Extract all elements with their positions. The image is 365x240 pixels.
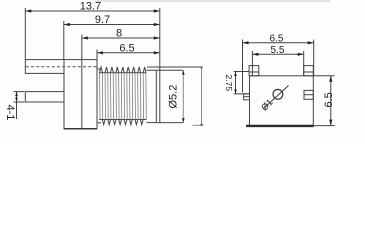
svg-text:4-1: 4-1 (4, 105, 16, 121)
Ø1 leader line (264, 86, 289, 109)
dimension 8 (82, 28, 160, 60)
svg-text:6.5: 6.5 (270, 33, 284, 44)
connector body block (side view) (64, 60, 97, 129)
svg-text:Ø1: Ø1 (259, 97, 275, 113)
left side leg tab (244, 94, 250, 100)
lower mounting leg (25, 92, 64, 102)
upper mounting leg (25, 60, 64, 74)
svg-text:2.75: 2.75 (224, 75, 234, 92)
svg-text:8: 8 (116, 28, 122, 40)
hidden PCB slot line (dashed) (26, 66, 97, 68)
end face edge (155, 70, 157, 122)
body bottom edge (64, 128, 97, 130)
dimension 13.7 overall length (25, 1, 160, 68)
threaded barrel (97, 67, 147, 125)
dimension 6.5 width (front view) (243, 33, 314, 92)
svg-text:5.5: 5.5 (271, 45, 285, 56)
outer reference dimension line (193, 66, 204, 126)
right side leg tab (304, 90, 313, 99)
svg-text:13.7: 13.7 (80, 1, 101, 13)
center pin (Ø1 circle) (273, 89, 283, 99)
dimension 9.7 (64, 14, 160, 60)
dimension 5.5 leg span (252, 45, 303, 76)
scan artifact line (95, 0, 330, 2)
dimension 6.5 barrel length (97, 42, 160, 59)
top-left leg tab (249, 66, 259, 76)
svg-text:Ø5.2: Ø5.2 (168, 85, 180, 109)
end face chamfer edge (159, 67, 161, 123)
svg-text:9.7: 9.7 (95, 14, 110, 26)
svg-text:6.5: 6.5 (119, 42, 134, 54)
square flange body (front view) (250, 76, 314, 126)
dimension Ø5.2 tip diameter (147, 67, 203, 123)
top-right leg tab (304, 66, 314, 76)
dimension 4-1 leg thickness (4, 92, 24, 121)
svg-text:6.5: 6.5 (323, 92, 335, 107)
smooth tip cylinder (147, 70, 184, 122)
bottom edge (bold) (246, 125, 314, 127)
dimension 6.5 height (front view) (314, 76, 335, 126)
dimension 2.75 (224, 72, 249, 94)
